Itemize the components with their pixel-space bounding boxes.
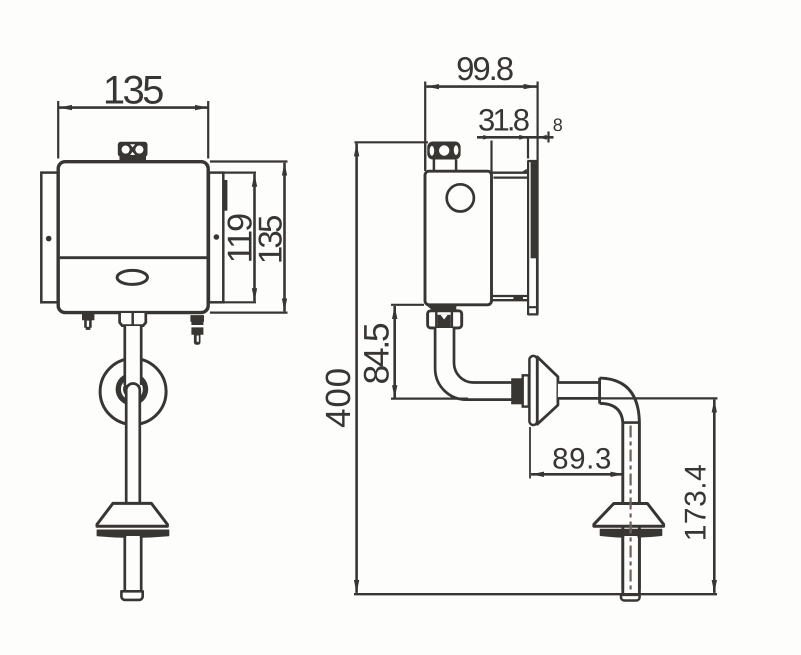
svg-text:89.3: 89.3 — [552, 442, 612, 475]
svg-text:135: 135 — [251, 216, 288, 264]
svg-text:173.4: 173.4 — [679, 464, 712, 542]
svg-text:135: 135 — [103, 69, 163, 113]
svg-text:31.8: 31.8 — [478, 103, 529, 138]
svg-text:8: 8 — [553, 115, 563, 135]
svg-text:84.5: 84.5 — [356, 323, 396, 384]
svg-text:400: 400 — [319, 367, 358, 428]
svg-text:99.8: 99.8 — [456, 50, 513, 87]
